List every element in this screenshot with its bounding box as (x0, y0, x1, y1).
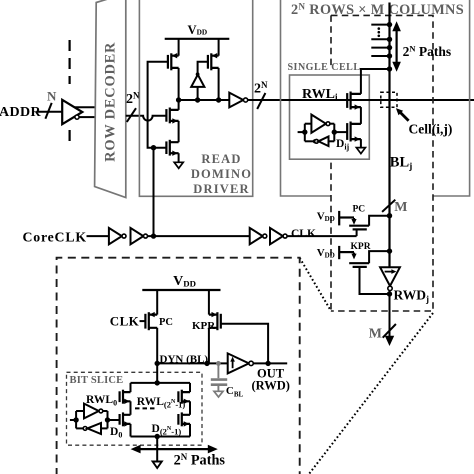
wire KPR source to VDD (detail) (208, 290, 210, 315)
bus slash 2^N RWL (257, 93, 265, 109)
junction dynamic/MP2 (216, 97, 221, 102)
node dynamic (driver) (179, 99, 230, 101)
junction latch input (302, 129, 307, 134)
wire RWL0 drain to rail (130, 383, 132, 392)
transistor MP1 precharge PMOS (driver) (168, 53, 179, 70)
wire storage source to ground (360, 139, 362, 148)
single cell gray box (288, 62, 370, 159)
inverter U3 driver output (229, 93, 247, 108)
bit slice dashed box (67, 372, 203, 445)
inverter U12 bit latch forward (76, 404, 107, 419)
ground (cell) (356, 148, 365, 154)
svg-text:READ: READ (201, 152, 241, 166)
boundary dashed line (upper segment) (68, 40, 70, 84)
wire KPR gate feedback (detail) (221, 324, 268, 364)
wire decoder output with crossover hop (126, 116, 167, 121)
junction stub3/BL (387, 45, 392, 50)
junction clock riser/CoreCLK wire (151, 233, 156, 238)
transistor MN2 footer NMOS (driver) (166, 140, 178, 156)
wire ADDR to buffer (38, 111, 63, 113)
inverter U4 clock buffer 1 (109, 228, 126, 244)
wire MN1 drain to dynamic node (178, 100, 180, 110)
junction bit latch right (105, 417, 110, 422)
svg-text:CLK: CLK (110, 314, 140, 329)
transistor RWL0 NMOS (120, 390, 131, 404)
svg-text:CLK: CLK (291, 228, 316, 240)
wire PC source to VDD (detail) (156, 290, 158, 315)
junction DYN/KPR (204, 361, 209, 366)
junction stub1/BL (387, 22, 392, 27)
svg-text:DOMINO: DOMINO (191, 167, 252, 181)
inverter U9 cell latch feedback (points left) (305, 137, 335, 147)
wire clock riser to domino driver (153, 148, 155, 236)
inverter U11 OUT (arrow inside, detail) (228, 353, 254, 373)
arrow 2^N paths double-headed (bottom) (131, 445, 218, 454)
wire OUT (RWD) output (253, 362, 287, 364)
junction OUT/KPR feedback (265, 361, 270, 366)
wire BL bitline vertical (388, 3, 390, 268)
transistor MP2 keeper PMOS (driver) (208, 53, 219, 70)
ground (bit slice) (153, 462, 162, 469)
bus slash M (RWD) (383, 324, 396, 338)
junction DYN/PC/bit-slice (155, 361, 160, 366)
inverter U2 keeper feedback (points up) (191, 62, 208, 100)
wire RWLn source to Dn drain (189, 401, 191, 415)
svg-text:BIT SLICE: BIT SLICE (70, 375, 124, 386)
ground (driver) (174, 162, 183, 168)
arrow 2^N paths double-headed (392, 21, 401, 72)
wire cell latch right riser (333, 124, 335, 142)
bus slash M (BL) (382, 200, 395, 212)
wire RWL0 source to D0 drain (130, 401, 132, 415)
wire clock to MP1 gate (148, 62, 168, 148)
svg-text:RWLi: RWLi (302, 87, 338, 103)
wire RWLn drain to rail (189, 383, 191, 392)
bus slash N (45, 103, 51, 119)
svg-text:RWL0: RWL0 (86, 394, 117, 408)
wire CLK to PC gate (287, 235, 356, 237)
dotted magnifier line lower (309, 313, 433, 474)
svg-text:M: M (394, 200, 407, 215)
wire bit-slice riser to DYN (156, 363, 158, 383)
svg-text:N: N (47, 89, 57, 104)
svg-text:KPR: KPR (351, 242, 371, 252)
inverter U6 clock buffer 3 (250, 228, 267, 244)
svg-text:M: M (369, 327, 382, 342)
wire access source to storage drain (360, 107, 362, 124)
svg-text:PC: PC (159, 317, 173, 328)
wire bit latch right riser (107, 411, 109, 428)
wire CLK to PC gate (detail) (140, 320, 146, 322)
transistor M-storage NMOS D_ij (cell) (347, 122, 361, 142)
transistor MN1 input NMOS (driver) (166, 108, 178, 124)
wire MN2 source to ground (178, 153, 180, 162)
wire bit latch input stub (70, 419, 76, 421)
row decoder block (95, 0, 126, 198)
array dashed box (331, 15, 433, 311)
junction bottom rail (155, 434, 160, 439)
svg-text:RWDj: RWDj (394, 288, 430, 305)
svg-text:DYN (BL): DYN (BL) (160, 354, 209, 366)
transistor KPR PMOS mirrored (detail) (209, 312, 221, 330)
transistor D(2^N-1) NMOS (178, 412, 190, 426)
wire clock middle segment (148, 235, 250, 237)
wire RWD output (389, 291, 391, 337)
arrow RWD down (385, 336, 394, 346)
wire D0 source to bottom rail (130, 424, 132, 437)
wire bit-slice bottom rail (131, 436, 191, 438)
inverter U13 bit latch feedback (points left) (76, 423, 107, 434)
wire cell latch input stub (298, 131, 305, 133)
wire path stub 4 (371, 55, 389, 57)
junction latch output (332, 129, 337, 134)
junction PC/BL (387, 213, 392, 218)
capacitor C_BL (gray) (211, 361, 244, 399)
wire bit latch left riser (75, 411, 77, 428)
wire PC drain to DYN (detail) (156, 328, 158, 364)
cell(i,j) dashed box (381, 92, 397, 107)
svg-text:ROW DECODER: ROW DECODER (102, 42, 118, 162)
wire bit latch to D0 gate (108, 419, 120, 421)
svg-text:CoreCLK: CoreCLK (23, 229, 87, 244)
wire CoreCLK to inverter chain (87, 235, 109, 237)
svg-text:(RWD): (RWD) (252, 379, 290, 393)
wire MN1 source to MN2 drain (178, 121, 180, 142)
inverter U10 BL sense (arrow inside) (380, 267, 400, 290)
inverter U7 clock buffer 4 (270, 228, 287, 244)
dotted magnifier line upper (300, 258, 331, 311)
svg-text:ADDR: ADDR (0, 105, 42, 120)
wire MP1 drain to dynamic node (178, 68, 180, 100)
transistor D0 NMOS (120, 412, 131, 426)
svg-text:SINGLE CELL: SINGLE CELL (288, 62, 361, 73)
junction top rail (155, 380, 160, 385)
wire path stub 3 (371, 47, 389, 49)
arrow pointer to cell(i,j) (396, 108, 409, 121)
junction clock riser/gate wire (151, 145, 156, 150)
ellipsis dashes (135, 407, 156, 409)
wire bottom rail to ground (156, 437, 158, 462)
inverter U5 clock buffer 2 (131, 228, 148, 244)
junction stub4/BL (387, 53, 392, 58)
svg-text:PC: PC (353, 205, 366, 215)
buffer U1 (address driver, complementary outputs) (62, 100, 94, 124)
wire KPR drain to DYN (detail) (208, 328, 210, 364)
junction stub2/BL (387, 37, 392, 42)
svg-text:DRIVER: DRIVER (193, 182, 250, 196)
wire bit-slice top rail (131, 382, 191, 384)
wire MP2 drain to dynamic node (218, 68, 220, 100)
wire path stub 1 (371, 24, 389, 26)
bus slash 2^N decoder output (127, 108, 136, 122)
power rail VDD driver (165, 23, 230, 39)
junction RWD node (387, 291, 392, 296)
node DYN (BL) wire (158, 362, 228, 364)
transistor PC PMOS (detail) (145, 312, 157, 330)
junction bit latch left (73, 417, 78, 422)
junction dynamic/MP1 (176, 97, 181, 102)
inverter U8 cell latch forward (305, 115, 335, 133)
wire cell latch left riser (304, 124, 306, 142)
wire MP2 source to VDD (218, 39, 220, 56)
wire Dn source to bottom rail (189, 424, 191, 437)
junction KPR/BL (387, 248, 392, 253)
svg-text:Cell(i,j): Cell(i,j) (409, 121, 453, 136)
junction dynamic/U2 (195, 97, 200, 102)
transistor PC precharge PMOS (horizontal) (339, 205, 389, 237)
wire path stub 2 (371, 38, 389, 40)
detail dashed box (57, 258, 300, 474)
wire MP1 source to VDD (178, 39, 180, 56)
wire RWL row line (248, 99, 474, 101)
memory array gray box (281, 0, 470, 196)
transistor M-access NMOS (cell) (347, 92, 361, 110)
power rail VDD detail (142, 274, 220, 290)
svg-text:KPR: KPR (192, 320, 216, 332)
read domino driver box (139, 0, 252, 196)
ellipsis dots (more paths) (378, 27, 381, 37)
boundary dashed line (lower segment) (68, 130, 70, 148)
svg-text:BLj: BLj (390, 155, 413, 173)
wire latch output to storage gate (334, 131, 347, 133)
transistor RWL(2^N-1) NMOS (178, 390, 190, 404)
transistor KPR keeper PMOS (horizontal) (339, 242, 389, 294)
wire cell access drain to BL (361, 69, 390, 94)
junction cell/BL (387, 66, 392, 71)
